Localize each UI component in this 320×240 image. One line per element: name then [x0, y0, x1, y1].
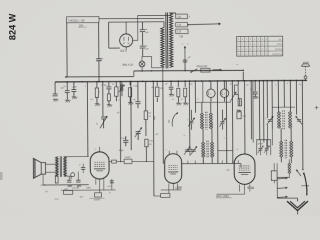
fuse box [201, 68, 210, 72]
cathode capacitor right [76, 179, 80, 181]
svg-text:2Ω: 2Ω [190, 83, 193, 86]
switch frame top [277, 176, 289, 178]
AH1 pins down [168, 183, 170, 193]
output transformer secondary [64, 157, 67, 177]
wire drop x263 [263, 81, 265, 143]
wire legend-right down [98, 23, 100, 59]
grid leak box GMB [95, 193, 102, 197]
wire drop x244 to tube [244, 81, 246, 154]
wire x146 between [145, 119, 147, 136]
wire drop x195 [194, 81, 196, 113]
cathode capacitor left [70, 176, 72, 179]
svg-text:AZ 1: AZ 1 [120, 49, 127, 53]
voltage selector box 125 [176, 29, 188, 34]
hatch grounds right band [236, 109, 240, 111]
rectifier tube AZ 1 [120, 34, 133, 47]
padder trimmer left [258, 147, 262, 149]
switch frame bottom [277, 197, 297, 199]
chassis ground arrow [287, 201, 308, 211]
AH1 top pins [168, 151, 170, 155]
grid resistor right of AL4 a [109, 161, 112, 163]
filter capacitor lower [140, 45, 146, 47]
ift2 right coil [211, 129, 213, 142]
oscillator coupling arrow [172, 113, 177, 126]
capacitor drop x109 [108, 82, 110, 87]
ground tail [297, 210, 299, 214]
antenna plug [304, 76, 307, 79]
trimmer arrow x233 [230, 92, 236, 102]
wire top horiz y15 [138, 14, 169, 16]
ift4 right coil [290, 128, 292, 141]
switch wafer arrow 3 [277, 196, 287, 199]
svg-text:BWL 6,3V: BWL 6,3V [123, 63, 134, 66]
wire az1 anode right [133, 39, 138, 41]
wire legend-left down [66, 23, 68, 77]
wire lamp bottom [141, 67, 143, 71]
ift1 trimmer right [220, 121, 224, 123]
switch wafer arrow 2 [277, 187, 287, 190]
wire drop x302 switch feed [301, 80, 304, 169]
antenna symbol [301, 64, 309, 66]
ground stem [296, 198, 298, 201]
svg-text:ΩΩ: ΩΩ [168, 119, 171, 123]
loudspeaker [41, 163, 45, 175]
resistor mid x146 lower [145, 139, 148, 147]
svg-text:€.4Ω: €.4Ω [247, 186, 254, 190]
power transformer primary winding [169, 13, 173, 68]
bias resistor box [64, 190, 73, 194]
resistor drop x116 [115, 82, 117, 87]
svg-text:204: 204 [79, 24, 84, 27]
filter capacitor upper [141, 22, 143, 29]
ift1 core [205, 112, 207, 130]
tube AH 1 [165, 154, 182, 184]
wire trafo bottom [64, 175, 71, 177]
output tube AL 4 [90, 152, 109, 179]
wire drop x278 ift [277, 81, 279, 112]
wire AF7 bottom [217, 193, 245, 195]
wire bottom-left bus y184 [43, 184, 89, 186]
rail end drop left [54, 82, 56, 94]
capacitor rail end [53, 93, 58, 95]
speaker leads [46, 163, 57, 165]
svg-text:µΩ: µΩ [227, 169, 230, 172]
wire drop x232 [231, 81, 234, 163]
switch contact arm [296, 170, 301, 176]
wire avc x87 long [86, 82, 88, 157]
switch frame left [276, 177, 278, 198]
wire AL4 pins down [95, 179, 97, 185]
capacitor x255 + ground [254, 81, 256, 91]
wire ift3 top link [272, 106, 295, 108]
ift3 right coil [290, 112, 292, 129]
wire ift4 bottom [280, 157, 282, 162]
fuse arrow [213, 69, 222, 71]
wire bottom bus y164 [182, 162, 241, 164]
ift2 core [206, 141, 208, 158]
wire transformer secondary bottom to rail [162, 68, 164, 81]
ground rail end [53, 98, 57, 100]
resistor drop x185 [184, 81, 186, 87]
svg-text:µF µF: µF µF [258, 143, 264, 145]
scan smudge left edge [0, 172, 3, 180]
svg-text:ΩγΩ: ΩγΩ [153, 115, 156, 120]
svg-text:220V: 220V [277, 44, 283, 46]
AF7 pins down [238, 184, 240, 191]
wire drop x163 long [162, 81, 165, 163]
power transformer secondary winding [161, 27, 165, 67]
wire drop x202 ift feed [202, 81, 204, 102]
switch shaft lever [304, 173, 307, 195]
power transformer core [165, 12, 167, 68]
voltage table [237, 36, 283, 56]
svg-text:O(280/70): O(280/70) [272, 54, 282, 56]
antenna lead dashed [304, 66, 306, 75]
ift3 core [282, 110, 284, 129]
svg-text:4,1Ω: 4,1Ω [119, 149, 124, 152]
output transformer core [59, 156, 61, 177]
svg-text:110/Ωd: 110/Ωd [275, 48, 283, 51]
svg-text:ΩγΩΩ: ΩγΩΩ [125, 156, 131, 159]
wire drop x272 [271, 81, 273, 129]
wire grid link y151 [218, 150, 233, 152]
wire trafo top to tube [64, 156, 89, 158]
ift4 core [284, 140, 286, 158]
wire drop x290 ift [289, 81, 291, 112]
ift4 left coil [280, 128, 282, 141]
legend box S-Nr [66, 17, 99, 23]
wire ift1 top link [195, 101, 231, 103]
wire between filter caps [142, 32, 144, 45]
trimmer mid left [136, 131, 141, 133]
wire cap to rail [98, 61, 100, 82]
wire drop x259 [258, 81, 260, 140]
wire x111 down [111, 179, 113, 190]
bus rail upper [134, 69, 243, 72]
svg-text:1Ω: 1Ω [148, 111, 151, 114]
bus rail jog [133, 71, 135, 77]
tube E 4 [234, 154, 255, 184]
wire drop x296 trimmer [295, 80, 297, 114]
wire drop x131 long [130, 81, 132, 150]
cap small mid [81, 166, 85, 168]
AH1 grid box [161, 193, 170, 197]
trimmer near x189 [188, 148, 193, 150]
wire lower cap down [142, 49, 144, 57]
svg-text:7 061/2111 - 105: 7 061/2111 - 105 [67, 20, 85, 22]
resistor mid x146 upper 7ohm [144, 111, 147, 120]
wire drop x267 trimmer [266, 81, 268, 118]
wire ift2 bottom [202, 157, 204, 163]
bus rail short mid [66, 76, 134, 78]
svg-text:µºΩ 4Ω: µºΩ 4Ω [72, 186, 79, 189]
switch coil [289, 163, 290, 173]
mains switch lever [191, 69, 197, 72]
switch wafer arrow 1 [277, 177, 287, 180]
tuning capacitor with arrow [102, 82, 104, 117]
svg-text:ℒ3Ψ: ℒ3Ψ [175, 186, 182, 190]
rail connector right [242, 71, 244, 80]
wire right bottom link [240, 163, 242, 167]
ift3 trimmer left [268, 119, 272, 121]
tube AL4 top cap [99, 147, 101, 152]
junction dots rails [66, 81, 68, 83]
svg-text:PS/2Ω/3S: PS/2Ω/3S [197, 65, 208, 68]
resistor dark x130 [129, 81, 131, 85]
wire drop x145 tap [145, 81, 147, 110]
resistor drop x157 [156, 81, 158, 86]
switch link horiz [301, 185, 309, 187]
wire transformer bottom lead [150, 56, 152, 67]
pickup jack arrow [184, 46, 186, 62]
wire top horiz y21 [109, 21, 164, 23]
svg-text:ΩΩ: ΩΩ [243, 114, 247, 117]
capacitor x138 branch [137, 81, 139, 101]
wire primary top to selector [169, 12, 175, 14]
wire rectifier loop bottom [109, 47, 120, 49]
wire drop x284 [283, 81, 285, 108]
resistor 50 right-mid [237, 112, 241, 119]
wire drop x217 [216, 81, 219, 163]
wire drop x189 [188, 81, 190, 147]
bus rail lower chassis [55, 80, 307, 82]
ift1 left coil [201, 102, 203, 113]
padder trimmer right [265, 147, 269, 149]
capacitor blocking top-left [96, 58, 102, 60]
stubs on bottom bus [187, 161, 189, 164]
ift3 left coil [279, 112, 281, 129]
wire lamp top [141, 56, 143, 61]
resistor drop x97 [96, 82, 98, 88]
wire AH1 bottom bus [161, 189, 182, 191]
wire rectifier loop left [108, 22, 110, 48]
selector arrow to dial [188, 23, 220, 26]
wire drop x67 + capacitor + ground [66, 82, 68, 91]
resistor drop x238 upper [237, 81, 239, 85]
output transformer primary [56, 157, 59, 177]
dial lamp [139, 61, 145, 67]
margin plus mark [315, 107, 319, 109]
wire top horiz y18 [99, 17, 164, 19]
svg-text:17Ω: 17Ω [149, 139, 153, 142]
svg-text:12408: 12408 [94, 200, 101, 202]
wire drop x251 [250, 81, 252, 140]
coil small x122 with arrow [121, 82, 123, 85]
voltage selector box 150 [176, 22, 188, 26]
wire bottom-left bus y189 [61, 189, 115, 191]
electrolytic can right [223, 81, 225, 89]
ift2 trimmer pair [185, 149, 189, 151]
wire drop x226 [225, 81, 228, 163]
capacitor drop x171 [170, 81, 172, 86]
voltage selector box 220 [176, 14, 188, 19]
resistor drop x240 lower [238, 99, 241, 106]
ift3 trimmer right [297, 118, 301, 120]
svg-text:+4µF: +4µF [72, 86, 78, 88]
resistor right column [271, 171, 277, 181]
ift1 right coil [210, 102, 212, 113]
wire drop x120 long [119, 82, 121, 163]
padder capacitor box [257, 140, 271, 156]
capacitor pickup [183, 59, 188, 61]
wire drop x153 long [152, 81, 155, 196]
svg-text:17Ω: 17Ω [133, 85, 137, 88]
svg-text:110: 110 [179, 35, 183, 38]
svg-text:824 W: 824 W [8, 13, 18, 40]
grid resistor right of AL4 b [116, 161, 124, 163]
ift1 trimmer left [189, 120, 193, 122]
resistor drop x178 [177, 81, 179, 87]
ift2 left coil [202, 129, 204, 142]
speaker fieldcoil resistor [55, 176, 58, 183]
electrolytic can left [210, 81, 212, 89]
